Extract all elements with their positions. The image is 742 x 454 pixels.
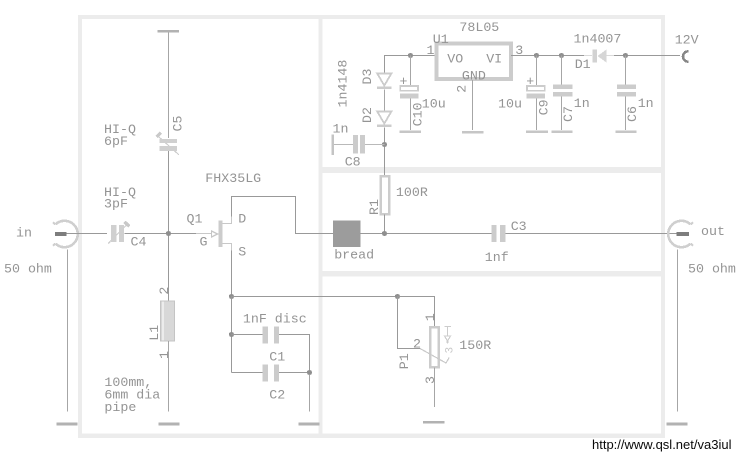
label bread <box>334 248 374 263</box>
capacitor C6 <box>617 56 636 131</box>
diode D3 <box>377 74 391 90</box>
label C4 <box>131 234 147 249</box>
label 1nF disc <box>243 312 307 327</box>
label 1n (C8) <box>333 122 349 137</box>
svg-text:out: out <box>701 224 725 239</box>
label out <box>701 224 725 239</box>
wire C4 to junction to gate <box>125 233 197 235</box>
capacitor C10 (electrolytic) <box>400 56 419 131</box>
wire P1 pin3 down <box>434 368 436 408</box>
connector 12V <box>683 51 689 61</box>
label U1 <box>433 32 449 47</box>
svg-text:R1: R1 <box>367 199 382 215</box>
label C2 <box>269 388 285 403</box>
wire D2 to C8 node and down to R1 <box>384 128 386 177</box>
ground (C2) <box>299 423 320 426</box>
label S <box>238 245 246 260</box>
svg-text:50 ohm: 50 ohm <box>4 261 52 276</box>
label U1 pin 1 <box>427 43 435 58</box>
capacitor C2 <box>232 365 310 382</box>
node R1/bead junction <box>382 231 387 236</box>
label FHX35LG <box>205 171 261 186</box>
node C7 junction <box>559 53 564 58</box>
wire gate stub <box>196 233 212 235</box>
label HI-Q 3pF <box>104 185 136 212</box>
ground (C7) <box>552 130 573 133</box>
label 12V <box>675 32 699 47</box>
svg-text:in: in <box>16 225 32 240</box>
label Q1 <box>187 212 203 227</box>
svg-text:bread: bread <box>334 248 374 263</box>
wire pin3 rail <box>511 55 680 57</box>
label R1 <box>367 199 382 215</box>
svg-text:G: G <box>200 235 208 250</box>
label 1n4007 <box>574 32 622 47</box>
label P1 <box>397 353 412 369</box>
label D2 <box>360 107 375 123</box>
IC U1 78L05 <box>437 44 512 84</box>
wire source down <box>231 251 233 297</box>
label in <box>16 225 32 240</box>
svg-text:C1: C1 <box>269 350 285 365</box>
ferrite bead (bread) <box>333 221 360 247</box>
diode D2 <box>377 112 391 128</box>
svg-text:C3: C3 <box>511 219 527 234</box>
capacitor C1 <box>232 327 310 373</box>
svg-text:D1: D1 <box>575 57 591 72</box>
ground (C9) <box>526 130 548 133</box>
svg-text:2: 2 <box>157 287 172 295</box>
label 100mm, 6mm dia pipe <box>104 375 160 415</box>
wire in connector to C4 <box>66 233 107 235</box>
wire C3 to out connector <box>505 233 676 235</box>
label L1 pin 1 <box>157 351 172 359</box>
label 1n4148 <box>336 60 351 108</box>
label 78L05 <box>459 20 499 35</box>
node C6 junction <box>623 53 628 58</box>
label U1 pin 3 <box>515 43 523 58</box>
svg-text:1: 1 <box>427 43 435 58</box>
svg-text:VI: VI <box>486 51 502 66</box>
ground (P1) <box>423 421 445 424</box>
capacitor C7 <box>553 56 572 131</box>
ground (output) <box>666 423 687 426</box>
wire C5 branch top <box>168 33 170 139</box>
svg-text:3: 3 <box>423 376 438 384</box>
wire bead to C3 <box>319 233 492 235</box>
svg-text:6pF: 6pF <box>104 134 128 149</box>
capacitor C4 (trimmer) <box>108 222 129 244</box>
svg-text:10u: 10u <box>498 97 522 112</box>
label P1 pin 1 <box>423 313 438 321</box>
ground (input) <box>57 423 78 426</box>
svg-text:2: 2 <box>455 85 470 93</box>
capacitor C9 (electrolytic) <box>526 56 545 131</box>
wire junction to P1 pin1 <box>398 297 435 328</box>
svg-text:2: 2 <box>413 337 421 352</box>
capacitor C3 <box>491 225 505 242</box>
label P1 pin 3 <box>423 376 438 384</box>
label 50 ohm (output) <box>688 261 736 276</box>
label U1 pin 2 <box>455 85 470 93</box>
label C3 <box>511 219 527 234</box>
label C6 <box>625 106 640 122</box>
ground (C10) <box>399 130 421 133</box>
svg-text:D: D <box>238 212 246 227</box>
label D1 <box>575 57 591 72</box>
svg-text:http://www.qsl.net/va3iul: http://www.qsl.net/va3iul <box>592 437 732 452</box>
node P1 junction <box>395 294 400 299</box>
svg-text:S: S <box>238 245 246 260</box>
svg-text:150R: 150R <box>459 338 491 353</box>
node source junction <box>229 294 234 299</box>
svg-text:1n4148: 1n4148 <box>336 60 351 108</box>
svg-text:P1: P1 <box>397 353 412 369</box>
label 10u (C10) <box>422 97 446 112</box>
label 50 ohm (input) <box>4 261 52 276</box>
wire GND pin down <box>472 80 474 130</box>
svg-text:C5: C5 <box>171 116 186 132</box>
svg-text:C9: C9 <box>537 99 552 115</box>
wire in connector down to ground <box>67 250 69 412</box>
wire 5V rail (pin1 side) <box>385 56 437 74</box>
svg-text:12V: 12V <box>675 32 699 47</box>
wire out connector down to ground <box>677 250 679 412</box>
potentiometer P1 <box>420 327 457 368</box>
svg-text:3pF: 3pF <box>104 196 128 211</box>
wire D3 to D2 <box>384 90 386 112</box>
diode D1 <box>584 49 614 62</box>
svg-text:1n4007: 1n4007 <box>574 32 622 47</box>
node C2 right <box>307 370 312 375</box>
svg-text:1nf: 1nf <box>485 250 509 265</box>
label C1 <box>269 350 285 365</box>
svg-text:VO: VO <box>447 51 463 66</box>
label D <box>238 212 246 227</box>
wire L1 bottom to ground <box>168 341 170 412</box>
wire C2 node down <box>309 375 311 412</box>
svg-text:L1: L1 <box>147 325 162 341</box>
connector J2 out <box>668 221 693 247</box>
wire junction to P1 wiper <box>398 297 421 349</box>
transistor Q1 (FET) <box>212 217 233 251</box>
node C1 left <box>229 332 234 337</box>
svg-text:78L05: 78L05 <box>459 20 499 35</box>
node C10 junction <box>408 53 413 58</box>
label 100R <box>396 185 428 200</box>
svg-text:3: 3 <box>445 347 457 354</box>
label C7 <box>561 106 576 122</box>
svg-text:100R: 100R <box>396 185 428 200</box>
svg-text:U1: U1 <box>433 32 449 47</box>
svg-text:FHX35LG: FHX35LG <box>205 171 261 186</box>
svg-text:1nF disc: 1nF disc <box>243 312 307 327</box>
capacitor C8 <box>332 134 385 155</box>
label D3 <box>360 69 375 85</box>
wire R1 to output line <box>384 215 386 234</box>
svg-text:pipe: pipe <box>104 400 136 415</box>
wire gate junction to L1 <box>168 234 170 302</box>
node C8 junction <box>382 142 387 147</box>
ground (C6) <box>616 130 637 133</box>
svg-text:1n: 1n <box>574 96 590 111</box>
wire C5 to gate junction <box>168 151 170 234</box>
resistor R1 <box>381 176 390 214</box>
label 1n (C6) <box>638 96 654 111</box>
label 1n (C7) <box>574 96 590 111</box>
label HI-Q 6pF <box>104 122 136 149</box>
label 150R <box>459 338 491 353</box>
node gate junction <box>166 231 171 236</box>
label 1nf <box>485 250 509 265</box>
label P1 pin 2 <box>413 337 421 352</box>
svg-text:GND: GND <box>462 68 486 83</box>
wire drain loop to bead <box>232 197 334 234</box>
svg-text:1n: 1n <box>638 96 654 111</box>
ground (U1 GND) <box>462 131 484 134</box>
label L1 pin 2 <box>157 287 172 295</box>
svg-text:D3: D3 <box>360 69 375 85</box>
label C5 <box>171 116 186 132</box>
svg-text:10u: 10u <box>422 97 446 112</box>
svg-text:C8: C8 <box>345 155 361 170</box>
svg-text:C4: C4 <box>131 234 147 249</box>
label C10 <box>410 102 425 126</box>
label C9 <box>537 99 552 115</box>
connector J1 in <box>53 221 78 247</box>
svg-text:1: 1 <box>157 351 172 359</box>
ground (L1) <box>158 423 179 426</box>
label G <box>200 235 208 250</box>
svg-text:1: 1 <box>423 313 438 321</box>
label L1 <box>147 325 162 341</box>
node C9 junction <box>534 53 539 58</box>
svg-text:C2: C2 <box>269 388 285 403</box>
wire source node down to C1/C2 <box>231 297 233 373</box>
svg-text:1n: 1n <box>333 122 349 137</box>
open terminal (top of C5 branch) <box>158 30 180 33</box>
svg-text:Q1: Q1 <box>187 212 203 227</box>
svg-text:50 ohm: 50 ohm <box>688 261 736 276</box>
svg-text:D2: D2 <box>360 107 375 123</box>
wire source node to P1 section <box>232 296 398 298</box>
label C8 <box>345 155 361 170</box>
inductor L1 <box>161 301 175 341</box>
label 10u (C9) <box>498 97 522 112</box>
capacitor C5 (trimmer) <box>157 133 179 155</box>
